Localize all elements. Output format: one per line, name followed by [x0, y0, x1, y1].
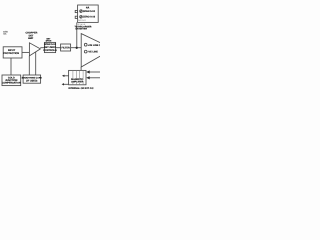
junction dot — [76, 47, 78, 49]
wire arrow right lower — [90, 77, 101, 79]
winding line lower 4 — [82, 83, 84, 85]
wire W7a T1 bottom corner down to L2 — [28, 56, 30, 75]
svg-text:COMPENSATION: COMPENSATION — [2, 82, 21, 85]
svg-text:INTERNAL OR EXT. DC: INTERNAL OR EXT. DC — [68, 87, 93, 90]
svg-text:mA: mA — [3, 33, 7, 36]
terminal box A — [78, 5, 99, 22]
arrowhead right lower — [86, 76, 90, 79]
svg-text:OR METER: OR METER — [75, 28, 87, 31]
winding line lower 3 — [79, 83, 81, 85]
span adjust box1 — [44, 42, 55, 52]
winding line lower 1 — [72, 83, 74, 85]
winding line lower 2 — [75, 83, 77, 85]
wire arrow left upper — [64, 75, 69, 77]
wire W1 vertical from box A to junction — [76, 22, 78, 47]
svg-text:AMP: AMP — [28, 37, 34, 40]
winding line upper 4 — [82, 70, 84, 78]
svg-text:JUNCTION: JUNCTION — [5, 79, 17, 82]
svg-text:ZERO 0-10: ZERO 0-10 — [83, 16, 96, 19]
meter circle M2 slash — [80, 16, 82, 18]
svg-text:+VE LINE OP: +VE LINE OP — [88, 44, 100, 47]
wire W6 input box down to cold junction box — [10, 58, 12, 75]
wire W4 T1 apex to box1 — [40, 47, 44, 49]
wire W7b T1 bottom slant down to L2 — [35, 52, 37, 75]
filter box — [61, 44, 71, 51]
op-amp T1 chopper amp triangle — [29, 43, 40, 56]
tab upper on box A — [75, 10, 77, 12]
winding line upper 1 — [72, 70, 74, 78]
arrowhead left upper — [62, 75, 64, 77]
winding line upper 3 — [79, 70, 81, 78]
meter circle M1 — [80, 10, 83, 13]
range card box L2 — [23, 75, 40, 83]
op-amp T2 output triangle — [81, 34, 113, 67]
wire arrow left lower — [64, 83, 69, 85]
wire W5 input box to T1 — [22, 51, 29, 53]
svg-text:CONTROLS: CONTROLS — [43, 49, 57, 52]
input protection box — [3, 47, 22, 58]
svg-text:AMPLIFIER: AMPLIFIER — [71, 81, 84, 84]
svg-text:SPAN: SPAN — [46, 40, 52, 43]
wire W8 T2 bottom corner to power box — [80, 67, 82, 70]
output circle +VE — [84, 43, 87, 46]
svg-text:SPAN 0-10: SPAN 0-10 — [83, 10, 96, 13]
winding line upper 2 — [75, 70, 77, 78]
svg-text:OUTPUT: OUTPUT — [77, 19, 86, 22]
svg-text:-VE LINE: -VE LINE — [88, 51, 99, 54]
wire W2 junction to T2 — [71, 47, 82, 49]
meter circle M2 — [80, 15, 83, 18]
magnetic amplifier power box — [69, 70, 86, 84]
arrowhead left lower — [62, 83, 64, 85]
cold junction compensation box L1 — [2, 75, 21, 86]
output circle -VE — [84, 50, 87, 53]
svg-text:FILTER: FILTER — [61, 47, 69, 50]
tab lower on box A — [75, 16, 77, 18]
meter circle M1 slash — [80, 10, 82, 12]
wire arrow right upper — [90, 71, 101, 73]
arrowhead right upper — [86, 70, 90, 73]
svg-text:PROTECTION: PROTECTION — [3, 52, 19, 55]
svg-text:(IF USED): (IF USED) — [26, 79, 37, 82]
wire W3 box1 to filter — [56, 47, 61, 49]
